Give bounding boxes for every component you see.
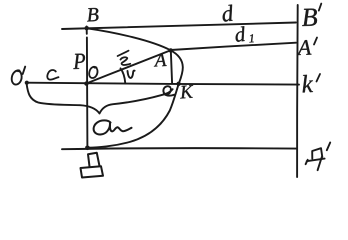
wire: diagonal O to A — [87, 50, 171, 83]
label P — [73, 54, 85, 69]
label D' (Cyrillic De prime) bottom right — [306, 143, 331, 171]
label O' (left point) — [12, 67, 25, 85]
node A — [169, 48, 173, 52]
wire: top horizontal line B to B' — [62, 23, 296, 30]
label A' — [297, 38, 317, 56]
node O (C) — [84, 81, 88, 85]
label tau-bar on diagonal — [118, 51, 131, 65]
label K' — [303, 74, 320, 92]
node K — [176, 82, 180, 86]
node O' (C') — [25, 81, 29, 85]
wire: second horizontal line A to A' (d1 line) — [171, 43, 296, 50]
label d1 — [236, 26, 254, 42]
node B — [85, 26, 89, 30]
label alpha/Q near K — [163, 86, 174, 95]
label A (point) — [154, 54, 167, 67]
label O (center) — [89, 67, 97, 78]
wire: bottom horizontal line — [62, 148, 297, 149]
label B — [87, 8, 98, 21]
wire: segment A down to middle line — [171, 51, 172, 84]
wire: right vertical line B' to bottom — [296, 5, 299, 177]
wire: under-brace for a from O' to below K — [27, 85, 173, 114]
label K (point) — [180, 85, 193, 98]
wire: big sweeping curve from B through A and K to foot — [87, 28, 183, 147]
symbol D (Cyrillic De) below foot — [81, 153, 104, 178]
label a (script, below brace) — [94, 120, 132, 134]
label c — [47, 70, 58, 80]
node foot of vertical at bottom line — [85, 146, 90, 151]
label v (angle) — [128, 71, 135, 78]
label B' — [302, 4, 321, 26]
angle arc v at O — [121, 68, 126, 83]
label d — [223, 5, 233, 22]
wire: middle horizontal line O' to K' — [27, 83, 299, 85]
wire: left vertical line through B, O, foot — [86, 27, 89, 148]
